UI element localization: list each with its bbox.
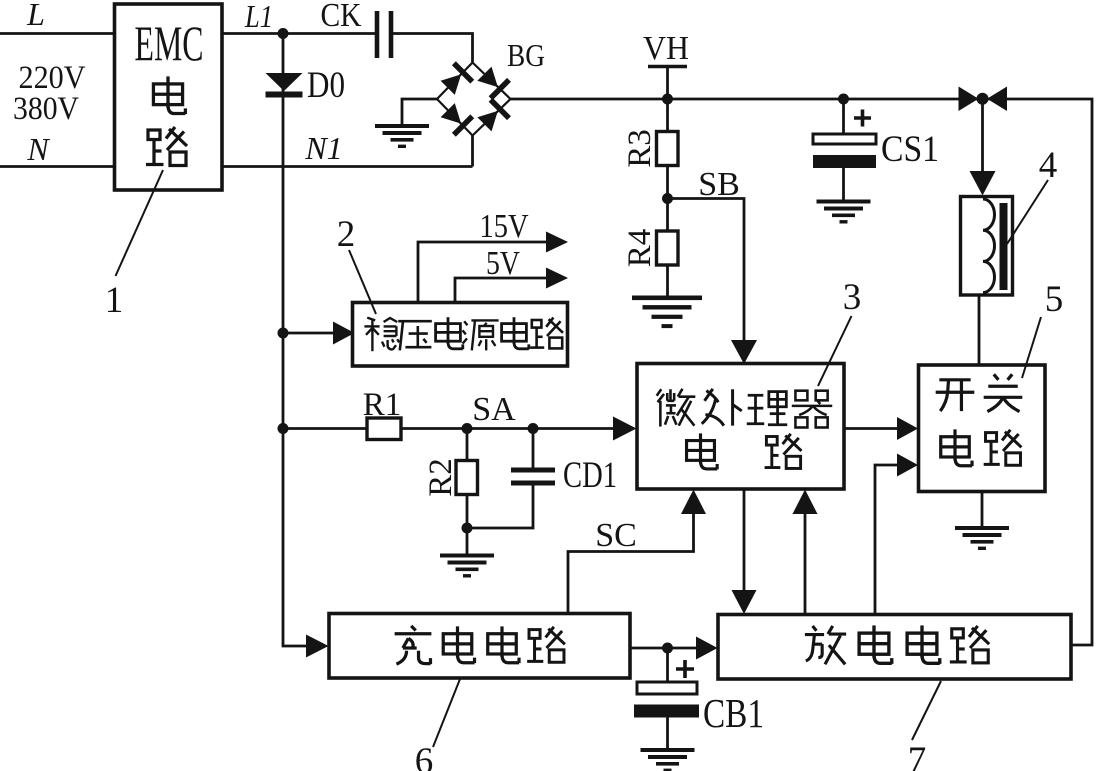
svg-text:VH: VH	[643, 30, 689, 67]
wire N1 (EMC output neutral)	[222, 165, 473, 168]
glyph ya in supply box	[398, 321, 432, 350]
glyph lu2 in microprocessor box	[765, 434, 802, 469]
wire microprocessor to switch circuit	[844, 427, 898, 430]
svg-text:L: L	[26, 0, 45, 32]
svg-text:L1: L1	[244, 0, 273, 34]
svg-text:CD1: CD1	[563, 455, 617, 496]
pointer line to label 5	[1022, 317, 1041, 378]
relay coil 4 core bar	[1000, 203, 1008, 290]
switch circuit box 5	[919, 365, 1046, 492]
capacitor CS1 bottom plate	[813, 155, 876, 168]
glyph wei in microprocessor box	[657, 389, 696, 427]
glyph dian in switch box	[941, 429, 972, 466]
EMC box U1	[115, 4, 223, 190]
diode D0	[266, 73, 303, 98]
glyph chu in microprocessor box	[702, 389, 742, 426]
resistor R3	[657, 132, 679, 166]
wire D0 column / node N1 vertical down to charging circuit	[283, 34, 307, 647]
glyph fang in discharge box	[805, 626, 846, 664]
microprocessor circuit box 3	[637, 364, 844, 490]
arrowhead SA into microprocessor	[613, 417, 637, 441]
glyph lu in switch box	[984, 430, 1022, 465]
wire regulated supply input from node	[283, 332, 334, 335]
wire SB to microprocessor top	[668, 199, 745, 342]
wire 15V output	[418, 242, 547, 303]
wire N (mains neutral input)	[0, 165, 115, 168]
arrowhead into charging circuit	[306, 635, 329, 658]
bridge diode upper-left	[438, 61, 474, 97]
ground under R2	[440, 554, 494, 578]
wire node to CB1	[666, 648, 669, 682]
capacitor CS1 plus sign	[854, 110, 871, 127]
arrowhead SB into microprocessor	[731, 340, 757, 364]
svg-text:2: 2	[337, 214, 356, 255]
arrowhead microprocessor to discharge top	[732, 590, 757, 614]
svg-text:CK: CK	[321, 0, 362, 34]
wire R4 to ground	[666, 265, 669, 296]
wire switch circuit to ground	[981, 492, 984, 527]
svg-text:3: 3	[843, 277, 862, 318]
wire discharge circuit to switch circuit	[875, 465, 898, 615]
wire L1 (EMC output live)	[222, 32, 375, 35]
wire CS1 to ground	[842, 167, 845, 200]
resistor R2	[456, 461, 478, 495]
bridge diode lower-left	[438, 101, 474, 137]
ground under switch circuit	[955, 526, 1009, 550]
arrowhead microprocessor into switch circuit	[897, 417, 918, 440]
capacitor CS1 top plate	[813, 134, 876, 144]
arrowhead into discharge circuit left	[696, 637, 718, 660]
capacitor CB1 plus sign	[676, 660, 694, 678]
glyph dian2 in charging box	[488, 626, 519, 663]
node SB junction dot	[662, 193, 673, 204]
svg-text:4: 4	[1039, 145, 1058, 186]
wire bridge bottom vertex to N1	[471, 136, 474, 167]
glyph dian in supply box	[436, 317, 463, 349]
node junction dot at supply input	[278, 328, 289, 339]
glyph lu in supply box	[530, 318, 563, 349]
node VH junction dot on bus	[662, 94, 673, 105]
svg-text:SA: SA	[472, 391, 516, 428]
arrowhead into relay coil 4	[970, 171, 996, 196]
wire L (mains live input)	[0, 32, 115, 35]
glyph dian in charging box	[443, 626, 474, 663]
ground under bridge	[375, 124, 429, 148]
wire main VH bus from bridge to right edge down to discharge circuit	[511, 99, 1093, 645]
capacitor CD1	[511, 468, 555, 486]
glyph wen in supply box	[364, 318, 399, 352]
glyph yuan in supply box	[463, 320, 499, 350]
wire VH stub	[666, 66, 669, 99]
svg-text:380V: 380V	[13, 91, 79, 127]
node CS1 junction dot on bus	[838, 94, 849, 105]
arrowhead SC into microprocessor bottom	[681, 490, 706, 515]
wire R1 to microprocessor input SA	[401, 427, 613, 430]
glyph kai in switch box	[936, 380, 975, 411]
wire node SA row from column to R1	[283, 427, 367, 430]
svg-text:6: 6	[415, 741, 434, 771]
pointer line to label 4	[1007, 180, 1048, 244]
ground under R4	[632, 296, 702, 329]
svg-text:SB: SB	[698, 166, 740, 203]
svg-text:CB1: CB1	[703, 690, 764, 736]
wire SC from charging circuit to microprocessor	[568, 513, 694, 614]
ground under CS1	[817, 200, 871, 224]
relay coil 4 winding	[983, 199, 995, 293]
glyph dian2 in microprocessor box	[687, 433, 718, 469]
wire CK to bridge top	[393, 34, 473, 63]
triac (bidirectional switch) on bus	[959, 87, 1008, 112]
glyph dian in discharge box	[859, 625, 892, 663]
wire SA node to R2	[466, 429, 469, 462]
wire relay coil 4 to switch circuit 5	[978, 295, 981, 365]
wire bridge left vertex to ground	[402, 99, 437, 124]
wire discharge circuit to microprocessor	[804, 513, 807, 615]
resistor R4	[657, 231, 679, 265]
wire bus to CS1	[842, 99, 845, 135]
arrowhead discharge to microprocessor bottom	[793, 490, 818, 515]
ground under CB1	[641, 748, 695, 771]
pointer line to label 6	[433, 679, 460, 747]
svg-text:5: 5	[1045, 279, 1064, 320]
wire CB1 to ground	[666, 717, 669, 748]
node L1 junction dot	[278, 28, 289, 39]
charging circuit box 6	[329, 614, 630, 679]
wire microprocessor to discharge circuit	[743, 489, 746, 590]
glyph lu in charging box	[527, 627, 565, 662]
svg-text:5V: 5V	[486, 245, 520, 282]
node CD1 junction dot	[528, 423, 539, 434]
arrowhead discharge into switch circuit	[897, 454, 918, 477]
capacitor CK	[377, 11, 391, 58]
capacitor CB1 bottom plate	[634, 705, 699, 718]
glyph li in microprocessor box	[747, 392, 787, 425]
bridge diode lower-right	[475, 98, 511, 134]
regulated power supply box 2	[353, 303, 568, 367]
svg-text:15V: 15V	[480, 208, 529, 245]
wire node SB to R4	[666, 199, 669, 232]
relay coil 4 box	[961, 197, 1013, 296]
VH rail bar	[648, 65, 687, 69]
node junction dot SA row left	[278, 423, 289, 434]
svg-text:SC: SC	[595, 517, 637, 554]
svg-text:7: 7	[908, 740, 927, 771]
svg-text:D0: D0	[307, 65, 345, 106]
pointer line to label 1	[116, 170, 164, 276]
glyph chong in charging box	[395, 626, 432, 664]
svg-text:N1: N1	[304, 130, 342, 166]
node SA junction dot	[462, 423, 473, 434]
node junction dot at CB1	[662, 643, 673, 654]
resistor R1	[367, 418, 401, 440]
svg-text:N: N	[26, 131, 50, 167]
svg-text:1: 1	[105, 280, 124, 321]
glyph lu in EMC box	[146, 127, 187, 166]
svg-text:EMC: EMC	[135, 15, 204, 71]
svg-text:R3: R3	[622, 129, 658, 168]
bridge diode upper-right	[475, 64, 511, 100]
wire bottom node to ground	[466, 528, 469, 554]
svg-text:BG: BG	[507, 37, 545, 73]
glyph dian in EMC box	[153, 76, 185, 114]
svg-text:CS1: CS1	[881, 129, 939, 170]
wire 5V output	[455, 278, 547, 303]
node junction dot below R2	[462, 523, 473, 534]
glyph guan in switch box	[984, 374, 1023, 411]
arrowhead 15V output	[546, 232, 568, 253]
arrowhead 5V output	[546, 268, 568, 289]
svg-text:R4: R4	[622, 229, 658, 268]
glyph lu in discharge box	[950, 626, 989, 663]
wire R2 to bottom node	[466, 495, 469, 528]
svg-text:R2: R2	[423, 458, 459, 497]
wire triac to relay coil 4	[981, 99, 984, 173]
glyph dian2 in supply box	[502, 317, 529, 349]
arrowhead into supply box	[333, 322, 355, 345]
wire SA row to CD1	[532, 429, 535, 468]
discharge circuit box 7	[718, 615, 1071, 680]
glyph qi in microprocessor box	[792, 391, 832, 428]
wire R3 to node SB	[666, 165, 669, 199]
wire bus to R3	[666, 99, 669, 132]
wire CD1 bottom to node	[467, 485, 533, 528]
svg-text:R1: R1	[363, 387, 402, 423]
glyph dian2 in discharge box	[907, 625, 940, 663]
wire charging circuit to discharge circuit	[630, 647, 705, 650]
pointer line to label 2	[349, 250, 376, 314]
capacitor CB1 top plate	[637, 682, 697, 694]
pointer line to label 7	[912, 681, 941, 740]
bridge rectifier BG diamond	[437, 63, 511, 136]
pointer line to label 3	[818, 316, 852, 386]
